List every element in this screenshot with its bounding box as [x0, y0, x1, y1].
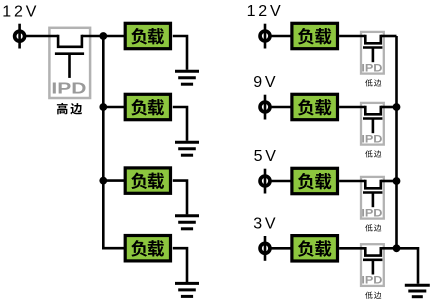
terminal / connector of 12V supply (right) [260, 24, 270, 49]
wire: left distribution bus (node A down to load 4) [103, 36, 124, 248]
transistor Q3: low-side MOSFET inside IPD (channel + gate) [363, 106, 382, 134]
ground symbol G2 (left) [175, 142, 199, 155]
svg-text:IPD: IPD [361, 133, 382, 145]
label IPD (low-side package R2) [361, 133, 382, 145]
ground symbol G5 (right common ground) [405, 285, 430, 297]
load block R3 负载 (right) [292, 168, 338, 193]
load block R1 负载 (right) [292, 23, 338, 48]
wire: low-side IPD R2 output to right bus [381, 106, 397, 109]
wire: low-side IPD R4 output to right bus [381, 247, 397, 250]
label IPD (high-side package) [51, 79, 86, 97]
wire: low-side IPD R1 output to right bus [381, 35, 397, 38]
wire: load R4 to low-side IPD [339, 247, 365, 250]
label IPD (low-side package R1) [361, 62, 382, 74]
wire: load R2 to low-side IPD [339, 106, 365, 109]
terminal / connector of 3V supply (right) [260, 236, 270, 261]
IPD package outline (low-side) R1, gray box [361, 32, 384, 74]
terminal / connector of 5V supply (right) [260, 169, 270, 194]
wire: 5V terminal to load (right) [271, 180, 292, 183]
svg-text:9V: 9V [253, 74, 278, 91]
junction node B (bus, row 2) [99, 103, 107, 111]
wire: load 1 to ground (left) [173, 36, 187, 70]
wire: load R3 to low-side IPD [339, 180, 365, 183]
label IPD (low-side package R3) [361, 207, 382, 219]
terminal / connector of 9V supply (right) [260, 95, 270, 120]
wire: 12V terminal to load (right) [271, 35, 292, 38]
terminal / connector of 12V supply (left) [15, 24, 25, 49]
wire: load R1 to low-side IPD [339, 35, 365, 38]
wire: 12V terminal to high-side IPD input [26, 35, 59, 38]
wire: bus to load 2 (left) [103, 106, 124, 109]
wire: 3V terminal to load (right) [271, 247, 292, 250]
transistor Q1: high-side MOSFET inside IPD (channel + gate) [55, 35, 84, 78]
svg-text:12V: 12V [2, 4, 39, 21]
wire: 9V terminal to load (right) [271, 106, 292, 109]
label IPD (low-side package R4) [361, 275, 382, 287]
load block L4 负载 (left) [125, 236, 170, 261]
svg-text:3V: 3V [253, 216, 278, 233]
junction node F (right bus, row 4) [393, 244, 401, 252]
ground symbol G3 (left) [175, 216, 199, 229]
IPD package outline (high-side), gray box [49, 28, 90, 98]
transistor Q5: low-side MOSFET inside IPD (channel + gate) [363, 247, 382, 275]
svg-text:12V: 12V [247, 3, 284, 20]
ground symbol G1 (left) [175, 71, 199, 84]
wire: low-side IPD R3 output to right bus [381, 180, 397, 183]
transistor Q4: low-side MOSFET inside IPD (channel + gate) [363, 180, 382, 208]
wire: right common bus down to ground [397, 36, 419, 284]
load block L1 负载 (left) [125, 23, 170, 48]
svg-text:IPD: IPD [361, 62, 382, 74]
load block R4 负载 (right) [292, 236, 338, 261]
wire: high-side IPD output to node A [82, 35, 125, 38]
wire: load 4 to ground (left) [173, 248, 187, 282]
ground symbol G4 (left) [175, 283, 199, 296]
transistor Q2: low-side MOSFET inside IPD (channel + gate) [363, 35, 382, 63]
load block L3 负载 (left) [125, 168, 170, 193]
junction node E (right bus, row 3) [393, 177, 401, 185]
load block L2 负载 (left) [125, 94, 170, 119]
label 高边 (high side) [57, 103, 82, 115]
wire: load 2 to ground (left) [173, 107, 187, 141]
IPD package outline (low-side) R4, gray box [361, 244, 384, 286]
label 低边 (low side) under R1 [365, 79, 381, 86]
svg-text:5V: 5V [254, 148, 279, 165]
IPD package outline (low-side) R2, gray box [361, 103, 384, 145]
junction node A (bus top, row 1) [99, 32, 107, 40]
load block R2 负载 (right) [292, 94, 338, 119]
label 低边 (low side) under R4 [365, 292, 381, 299]
label 低边 (low side) under R2 [365, 150, 381, 157]
IPD package outline (low-side) R3, gray box [361, 177, 384, 219]
junction node C (bus, row 3) [99, 177, 107, 185]
label 低边 (low side) under R3 [365, 224, 381, 231]
svg-text:IPD: IPD [361, 207, 382, 219]
svg-text:IPD: IPD [361, 275, 382, 287]
wire: bus to load 3 (left) [103, 179, 124, 182]
svg-text:IPD: IPD [51, 79, 86, 97]
junction node D (right bus, row 2) [393, 103, 401, 111]
wire: load 3 to ground (left) [173, 181, 187, 215]
